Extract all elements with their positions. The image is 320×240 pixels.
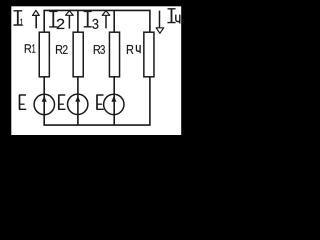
label R1 letter R	[25, 44, 32, 52]
label R1 digit 1	[32, 44, 35, 52]
EMF source E2 arrow head	[75, 96, 80, 102]
label R4 digit 4 (open-top style)	[136, 45, 140, 53]
label R3 digit 3	[100, 45, 105, 54]
label R3 letter R	[94, 45, 101, 54]
EMF source E3 circle	[104, 94, 124, 114]
wire branch 3	[113, 10, 115, 125]
EMF source E1 arrow head	[42, 96, 47, 102]
EMF source E1 circle	[34, 94, 54, 114]
label I4 subscript 4 (open-top style)	[176, 15, 180, 24]
label E3	[97, 95, 104, 110]
current arrow I4 (down)	[156, 11, 164, 34]
label I1	[14, 11, 23, 25]
label I4	[168, 9, 176, 23]
label I2 subscript 2	[57, 19, 65, 29]
EMF source E2 circle	[68, 94, 88, 114]
current arrow I2	[66, 11, 74, 29]
label I1 subscript 1	[20, 19, 23, 26]
resistor R3	[109, 32, 119, 77]
label R2 digit 2	[63, 45, 68, 54]
wire branch 2	[77, 10, 79, 125]
white drawing canvas	[11, 6, 181, 135]
label I2	[49, 11, 57, 27]
label I3	[84, 11, 92, 26]
resistor R1	[39, 32, 49, 77]
label I3 subscript 3	[92, 19, 98, 29]
resistor R4	[144, 32, 154, 77]
resistor R2	[73, 32, 83, 77]
label E2	[58, 95, 65, 110]
current arrow I1	[33, 10, 40, 28]
label R2 letter R	[56, 45, 63, 54]
label R4 letter R	[127, 45, 134, 54]
current arrow I3	[102, 11, 110, 29]
label E1	[19, 95, 26, 110]
EMF source E3 arrow head	[111, 96, 116, 102]
wire outer loop (top rail, branch 1 left side, branch 4 right side, bottom rail)	[44, 10, 150, 125]
